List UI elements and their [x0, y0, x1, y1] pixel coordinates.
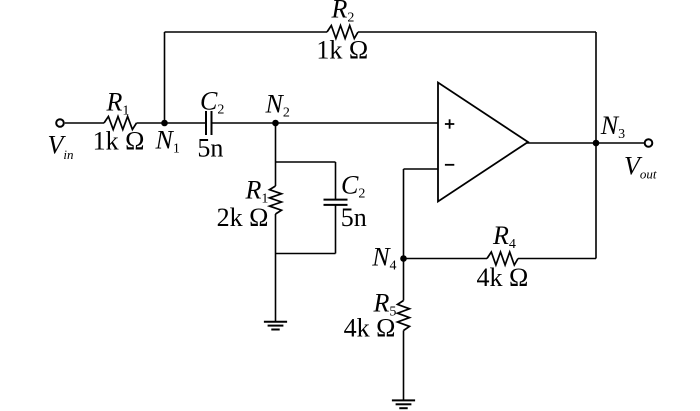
- op-amp minus input symbol: [445, 164, 454, 166]
- op-amp plus input symbol: [445, 119, 454, 128]
- wire minus input down to N4: [403, 169, 405, 301]
- svg-text:4k Ω: 4k Ω: [476, 263, 528, 292]
- capacitor C2 (parallel, 5n) plates: [324, 199, 348, 201]
- wire R1 to C2: [137, 122, 207, 124]
- op-amp U1 (triangle): [438, 83, 528, 202]
- svg-text:1k Ω: 1k Ω: [316, 36, 368, 65]
- wire R1 bottom to ground: [275, 214, 277, 322]
- svg-text:1k Ω: 1k Ω: [93, 127, 145, 156]
- resistor R1 (vertical, 2k): [270, 186, 282, 214]
- node N4 (junction dot): [400, 255, 407, 262]
- node N3 (junction dot): [593, 140, 600, 147]
- wire parallel branch top: [276, 161, 336, 163]
- node N1 (junction dot): [161, 120, 168, 127]
- svg-text:5n: 5n: [341, 203, 367, 232]
- wire cap branch upper: [335, 162, 337, 200]
- wire R5 to ground: [403, 331, 405, 401]
- wire N2 down to R1: [275, 123, 277, 186]
- ground (below R5): [392, 400, 415, 408]
- resistor R5 (vertical, 4k): [398, 301, 410, 331]
- wire N4 to R4: [404, 258, 488, 260]
- wire C2 to op-amp: [212, 122, 439, 124]
- resistor R2 (top, 1k): [327, 26, 358, 39]
- wire minus input: [404, 168, 439, 170]
- wire right rail down to N3 and R4: [595, 32, 597, 259]
- wire Vin to R1: [65, 122, 104, 124]
- wire top rail right of R2: [358, 31, 596, 33]
- svg-text:2k Ω: 2k Ω: [217, 203, 269, 232]
- resistor R1 (horizontal, 1k): [104, 117, 137, 130]
- resistor R4 (4k): [487, 252, 518, 265]
- wire R4 to right rail: [518, 258, 596, 260]
- node N2 (junction dot): [272, 120, 279, 127]
- capacitor C2 (series, 5n) plates: [205, 111, 207, 135]
- wire N1 up to feedback rail: [164, 32, 166, 123]
- svg-text:5n: 5n: [197, 134, 223, 163]
- wire top rail left of R2: [165, 31, 328, 33]
- ground (below R1): [264, 322, 287, 330]
- svg-text:4k Ω: 4k Ω: [344, 314, 396, 343]
- wire parallel branch bottom: [276, 253, 336, 255]
- input terminal Vin (open circle): [56, 119, 64, 127]
- wire cap branch lower: [335, 205, 337, 254]
- output terminal Vout (open circle): [645, 139, 653, 147]
- wire op-amp output to Vout: [527, 142, 645, 144]
